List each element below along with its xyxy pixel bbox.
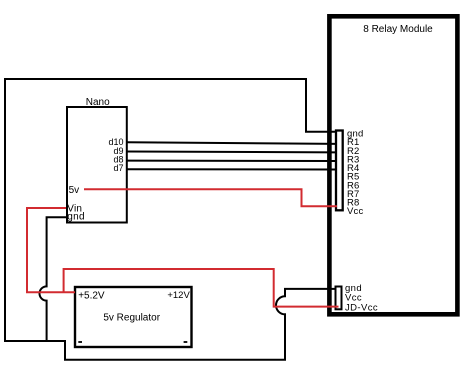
svg-text:+12V: +12V [167,290,190,301]
wire d8 to R3 [127,160,337,162]
relay header J1 bracket [336,131,343,211]
svg-text:JD-Vcc: JD-Vcc [345,302,378,313]
svg-text:5v Regulator: 5v Regulator [103,312,160,323]
wire nano gnd to bottom rail (with hop) [39,217,66,342]
nano U1 box [67,107,127,223]
wire d10 to R1 [127,142,337,144]
regulator pin minus right [184,341,188,343]
regulator pin minus left [78,341,82,343]
svg-text:Nano: Nano [86,97,110,108]
svg-text:8 Relay Module: 8 Relay Module [363,24,433,35]
wire d9 to R2 [127,151,337,154]
wire gnd loop: relay gnd, around left, to relay power gnd (with hop) [5,79,337,360]
svg-text:d7: d7 [113,163,123,173]
regulator VR1 box [75,287,192,347]
wire d7 to R4 [127,168,337,170]
relay module U2 box [329,16,457,314]
svg-text:gnd: gnd [67,212,85,223]
wire 5v to Vcc (red) [84,189,337,206]
svg-text:5v: 5v [69,185,80,196]
wire junction to JD-Vcc (red) [64,269,339,307]
svg-text:+5.2V: +5.2V [78,290,105,301]
svg-text:Vcc: Vcc [347,206,363,217]
relay power header J2 bracket [336,287,342,310]
wire Vin to regulator +5.2V (red) [27,208,75,292]
